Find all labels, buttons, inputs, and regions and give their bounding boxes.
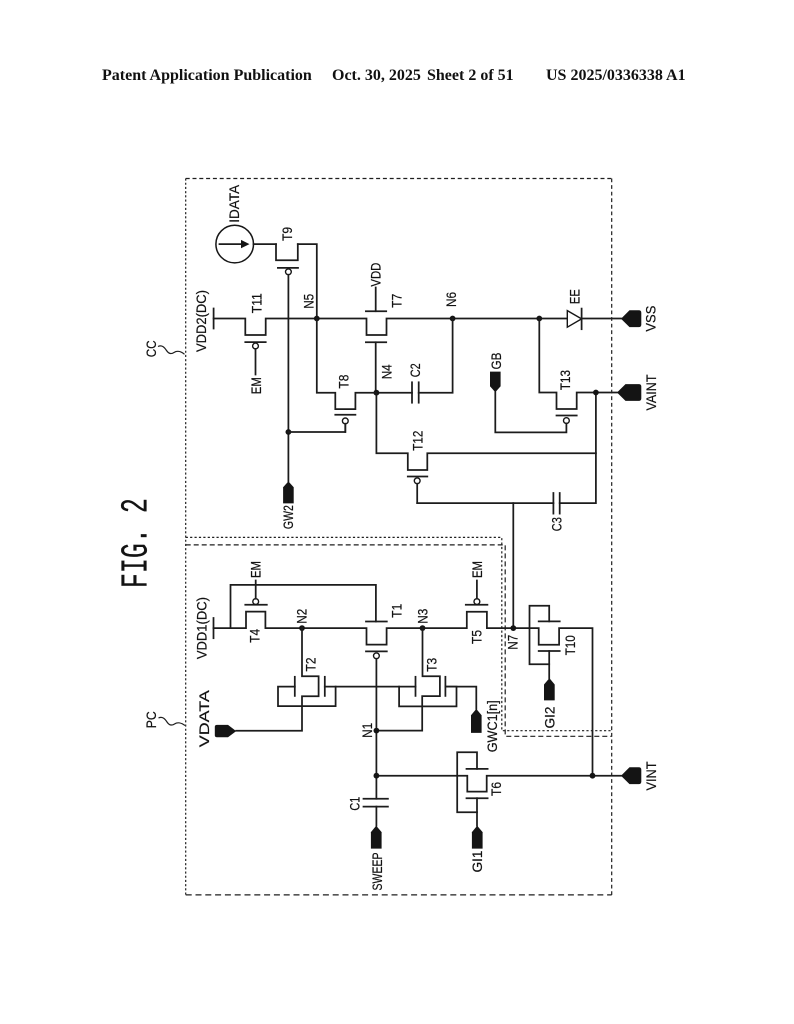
wire diode to VSS xyxy=(582,318,621,320)
svg-text:GB: GB xyxy=(488,353,504,370)
node N1 dot xyxy=(374,728,380,734)
svg-text:T4: T4 xyxy=(246,629,262,643)
transistor T12 (rail from N4, channel dip, to VAINT branch) xyxy=(376,393,596,503)
wire VINT line with T6 channel dip xyxy=(376,776,621,792)
svg-text:GI1: GI1 xyxy=(469,850,485,872)
svg-text:GWC1[n]: GWC1[n] xyxy=(484,700,500,752)
label T13 xyxy=(557,370,573,390)
label T3 xyxy=(424,658,440,672)
terminal GI1 xyxy=(472,826,483,849)
svg-text:FIG. 2: FIG. 2 xyxy=(116,498,159,588)
svg-text:IDATA: IDATA xyxy=(226,184,242,223)
junction dot diode branch xyxy=(536,316,542,322)
label EM (T4 gate) xyxy=(248,561,264,578)
label EM (T11 gate) xyxy=(248,377,264,394)
node N5 dot xyxy=(314,316,320,322)
capacitor C1 xyxy=(364,799,388,826)
transistor T11 xyxy=(245,342,265,374)
svg-text:VDD: VDD xyxy=(368,263,384,287)
svg-text:C1: C1 xyxy=(347,796,363,810)
node N3 dot xyxy=(420,625,426,631)
label C2 xyxy=(407,363,423,377)
junction dot GW2 branch xyxy=(286,429,292,435)
label VINT xyxy=(643,761,659,790)
label GB xyxy=(488,353,504,370)
label VSS xyxy=(643,306,659,332)
label GWC1[n] xyxy=(484,700,500,752)
svg-text:T9: T9 xyxy=(279,227,295,241)
svg-text:GW2: GW2 xyxy=(280,505,296,529)
label C3 xyxy=(549,517,565,531)
transistor T10 top bar and gate loop xyxy=(530,606,560,678)
label EE xyxy=(566,289,582,304)
svg-text:C2: C2 xyxy=(407,363,423,377)
wire T1 gate through N1 and VINT line to C1 xyxy=(375,659,377,799)
svg-text:EM: EM xyxy=(248,377,264,394)
node N4 dot xyxy=(374,390,380,396)
label IDATA xyxy=(226,184,242,223)
T3 dual gate bars xyxy=(416,677,446,696)
node dot VAINT/T13 xyxy=(593,390,599,396)
label N4 xyxy=(379,364,395,379)
terminal GB xyxy=(490,372,501,393)
label N6 xyxy=(443,292,459,307)
svg-text:T12: T12 xyxy=(410,431,426,451)
svg-text:T10: T10 xyxy=(562,635,578,655)
wire T12 gate line to C3 xyxy=(417,502,553,504)
label VDD1(DC) xyxy=(194,597,210,659)
svg-text:CC: CC xyxy=(143,340,159,357)
label N5 xyxy=(301,294,317,309)
transistor T2 channel path N2 to VDATA xyxy=(236,628,318,731)
wire: top rail VDD2 to diode (with T11 and T7 channel dips) xyxy=(214,319,568,336)
svg-text:T8: T8 xyxy=(336,374,352,388)
label T8 xyxy=(336,374,352,388)
figure title FIG. 2 xyxy=(116,498,159,588)
capacitor C2 xyxy=(412,382,419,402)
wire EM loop from VDD1 rail over to T1 top bar xyxy=(231,585,376,628)
label GW2 xyxy=(280,505,296,529)
terminal SWEEP xyxy=(371,826,382,849)
svg-text:N5: N5 xyxy=(301,294,317,309)
label VDD2(DC) xyxy=(193,290,209,352)
transistor T13 (rail to VAINT with channel dip) xyxy=(495,319,617,433)
node N7 dot xyxy=(510,625,516,631)
PC region label xyxy=(143,711,159,728)
svg-text:C3: C3 xyxy=(549,517,565,531)
CC dashed boundary box xyxy=(186,179,612,895)
svg-text:T1: T1 xyxy=(389,604,405,618)
wire N6 down to C2 xyxy=(419,319,453,393)
label T1 xyxy=(389,604,405,618)
label T10 xyxy=(562,635,578,655)
label N3 xyxy=(415,609,431,624)
label T6 xyxy=(488,782,504,796)
PC boundary divider (inner coarse dashed line) xyxy=(186,545,612,736)
CC region label xyxy=(143,340,159,357)
svg-text:T6: T6 xyxy=(488,782,504,796)
label T2 xyxy=(303,657,319,671)
terminal VSS xyxy=(621,310,641,327)
svg-text:EM: EM xyxy=(469,561,485,578)
transistor T3 channel path N3 to N1 xyxy=(376,628,440,731)
svg-text:T3: T3 xyxy=(424,658,440,672)
label T11 xyxy=(249,293,265,313)
label T9 xyxy=(279,227,295,241)
label GI1 xyxy=(469,850,485,872)
header xyxy=(102,67,312,85)
node N6 dot xyxy=(450,316,456,322)
label N2 xyxy=(294,609,310,624)
wire T9 gate down to GW2 (crosses rail) xyxy=(287,275,289,482)
label N1 xyxy=(359,723,375,738)
label EM (T5 gate) xyxy=(469,561,485,578)
PC boundary divider (outer fine dashed line) xyxy=(186,537,612,730)
terminal GI2 xyxy=(544,678,555,700)
svg-text:VAINT: VAINT xyxy=(643,374,659,410)
svg-text:T2: T2 xyxy=(303,657,319,671)
transistor T1 bottom gate (bar, circle, lead down) xyxy=(366,651,387,658)
svg-text:SWEEP: SWEEP xyxy=(369,853,385,891)
svg-text:VDD2(DC): VDD2(DC) xyxy=(193,290,209,352)
label T12 xyxy=(410,431,426,451)
PC pointer squiggle xyxy=(159,717,186,725)
node N2 dot xyxy=(299,625,305,631)
label T7 xyxy=(388,294,404,308)
T2 gate loop xyxy=(278,687,336,707)
VDD2(DC) power tee xyxy=(213,309,215,329)
VDD1 power tee xyxy=(213,618,215,638)
svg-text:VINT: VINT xyxy=(643,761,659,790)
transistor T8 (rail from N5 with channel dip to N4) xyxy=(317,319,377,433)
wire T9 drain to N5 xyxy=(298,244,317,318)
svg-text:PC: PC xyxy=(143,711,159,728)
wire T3 gates to GWC1 terminal xyxy=(445,687,476,709)
svg-text:EE: EE xyxy=(566,289,582,304)
svg-text:T13: T13 xyxy=(557,370,573,390)
wire T2 gates to T3 gates xyxy=(336,686,416,688)
svg-text:VDD1(DC): VDD1(DC) xyxy=(194,597,210,659)
label SWEEP xyxy=(369,853,385,891)
node dot C1/N1 branch on VINT line xyxy=(374,773,380,779)
wire N4 to C2 xyxy=(376,392,412,394)
svg-text:VDATA: VDATA xyxy=(196,689,212,747)
wire drop to node N7 xyxy=(512,503,514,628)
svg-text:GI2: GI2 xyxy=(542,706,558,728)
transistor T4 gate (bar, circle above, lead to EM) xyxy=(245,581,266,605)
svg-text:T7: T7 xyxy=(388,294,404,308)
svg-text:N7: N7 xyxy=(505,635,521,650)
wire C3 to VAINT node xyxy=(560,393,596,504)
svg-text:EM: EM xyxy=(248,561,264,578)
label VDD xyxy=(368,263,384,287)
label C1 xyxy=(347,796,363,810)
svg-text:N6: N6 xyxy=(443,292,459,307)
svg-text:N4: N4 xyxy=(379,364,395,379)
wire: lower rail VDD1-N2-N3-N7 with T4,T1,T5,T10 channels, down to VINT node xyxy=(214,612,593,776)
svg-text:N1: N1 xyxy=(359,723,375,738)
T1 top bar xyxy=(366,621,387,623)
label VDATA xyxy=(196,689,212,747)
T2 dual gate bars xyxy=(295,677,325,696)
label T5 xyxy=(468,630,484,644)
label N7 xyxy=(505,635,521,650)
CC pointer squiggle xyxy=(158,346,185,354)
terminal GWC1[n] xyxy=(471,709,482,733)
transistor T6 bars and gate loop xyxy=(457,752,487,825)
current source IDATA xyxy=(216,225,254,263)
wire T13 to VAINT terminal already drawn; terminal VAINT xyxy=(617,384,641,401)
T3 gate loop xyxy=(399,687,456,707)
wire branch to T8 gate xyxy=(288,424,345,432)
transistor T9 (channel dip) xyxy=(276,244,298,260)
terminal VDATA xyxy=(215,725,236,737)
label GI2 xyxy=(542,706,558,728)
diode EE xyxy=(567,309,581,330)
svg-text:N2: N2 xyxy=(294,609,310,624)
label VAINT xyxy=(643,374,659,410)
svg-text:VSS: VSS xyxy=(643,306,659,332)
label T4 xyxy=(246,629,262,643)
wire IDATA to T9 xyxy=(254,243,277,245)
svg-text:T11: T11 xyxy=(249,293,265,313)
node dot T10 branch on VINT line xyxy=(590,773,596,779)
terminal GW2 xyxy=(283,481,294,503)
transistor T5 gate (bar, circle above, lead to EM) xyxy=(466,581,488,605)
T9 gate bar and circle xyxy=(278,268,298,275)
svg-text:N3: N3 xyxy=(415,609,431,624)
transistor T7 (top bar to VDD, bottom bar to N4) xyxy=(366,288,386,393)
terminal VINT xyxy=(621,767,641,784)
svg-text:T5: T5 xyxy=(468,630,484,644)
capacitor C3 xyxy=(553,493,559,514)
